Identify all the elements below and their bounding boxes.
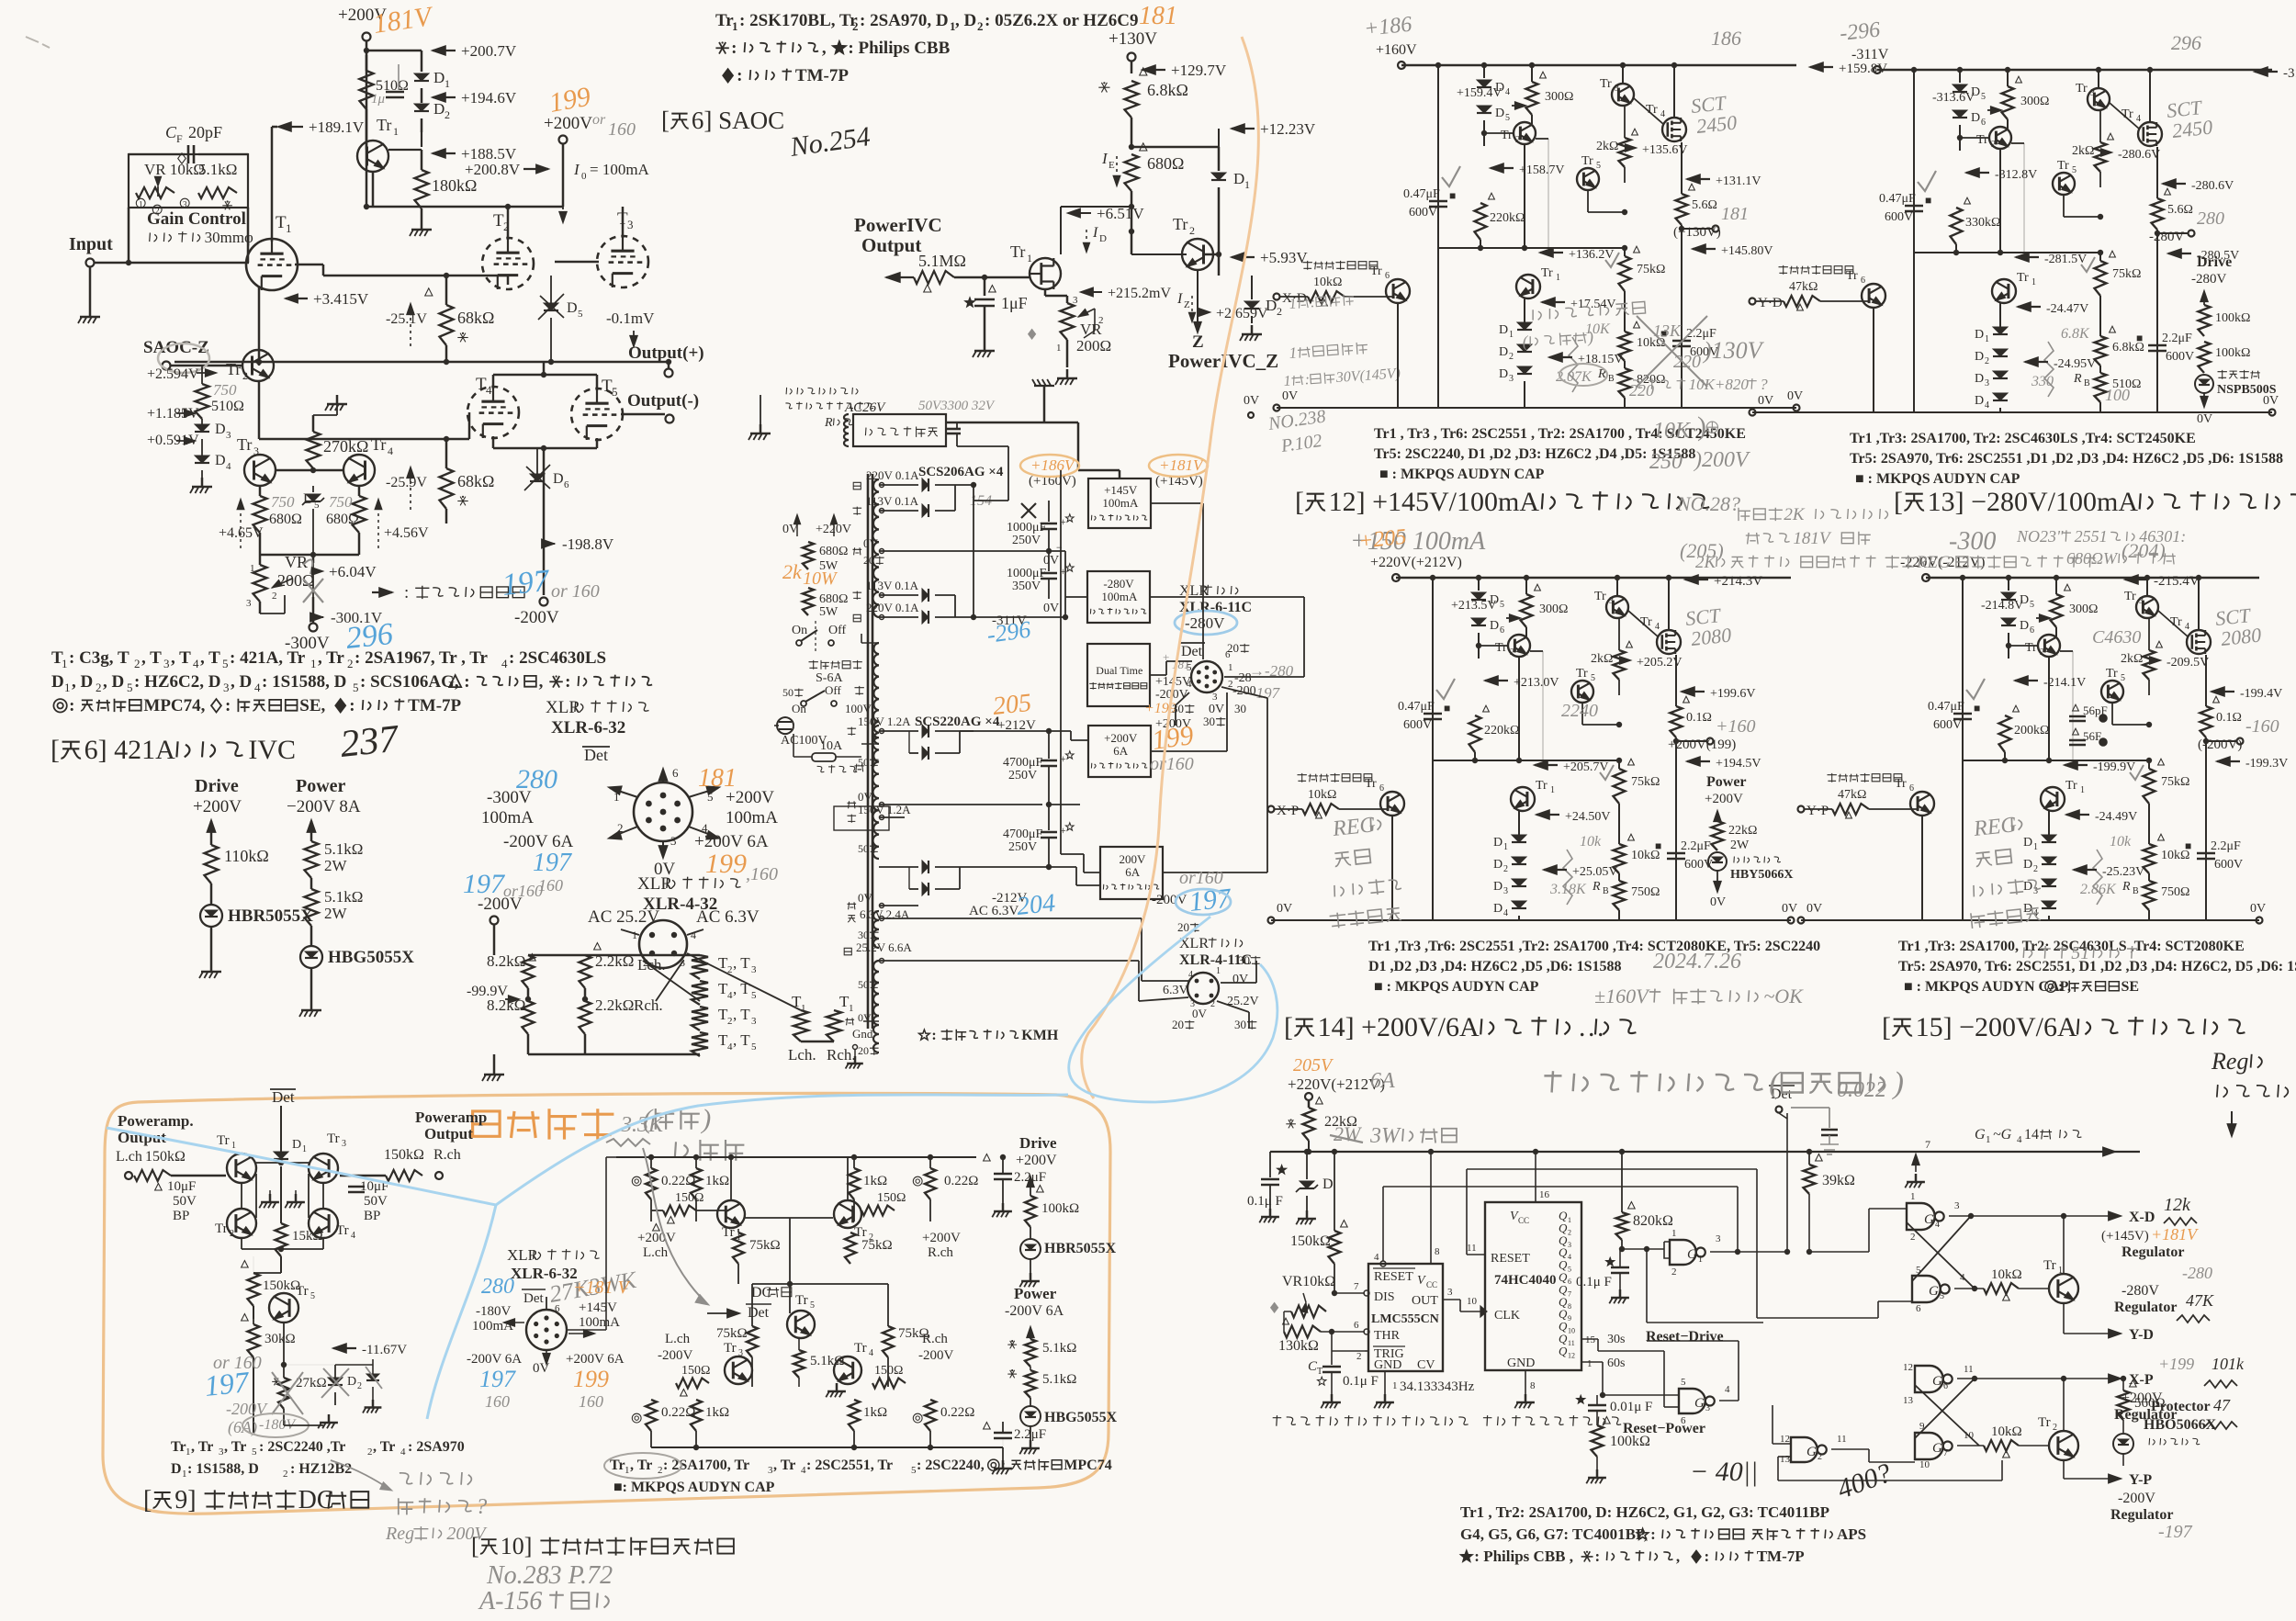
resistor 15k fig9 — [276, 1223, 287, 1256]
svg-text:1: 1 — [250, 563, 255, 574]
fuse 10A — [820, 739, 843, 753]
svg-text:Reset−Drive: Reset−Drive — [1646, 1329, 1724, 1345]
svg-text:50V3300 32V: 50V3300 32V — [918, 399, 996, 413]
svg-text:2: 2 — [1818, 1452, 1822, 1462]
voltage -300.1V — [310, 613, 323, 622]
fig13 -280V regulator voltage arrow mid1 — [1965, 168, 1979, 178]
fig10 resistor 150 L — [675, 1191, 703, 1205]
svg-text:BP: BP — [173, 1209, 189, 1223]
svg-text:+199: +199 — [2158, 1355, 2194, 1373]
svg-text:Det: Det — [584, 746, 608, 764]
timer 0.1uF star cap — [1277, 1165, 1287, 1175]
wire 680s join — [260, 554, 359, 557]
svg-text:1: 1 — [1283, 373, 1291, 389]
fig10 xlr label — [507, 1246, 600, 1264]
annotation 2k10W orange — [782, 560, 803, 583]
fig15 -200V regulator voltage arrow rail right — [2124, 575, 2138, 585]
fig13 -280V regulator capacitor 2.2uF — [2162, 332, 2192, 345]
svg-text:1: 1 — [1550, 785, 1555, 795]
svg-text:150kΩ: 150kΩ — [1290, 1233, 1331, 1249]
fig13 -280V regulator diode chain — [1993, 327, 2008, 334]
label XLR plug 4-11C — [1179, 936, 1243, 951]
svg-text:5: 5 — [222, 657, 229, 670]
svg-text:T, T: T, T — [716, 996, 717, 997]
svg-text::: : — [1650, 1525, 1656, 1543]
svg-text::: : — [225, 696, 231, 715]
svg-text:0.22Ω: 0.22Ω — [944, 1174, 978, 1188]
svg-text:D: D — [2020, 619, 2029, 633]
svg-text:39kΩ: 39kΩ — [1822, 1173, 1855, 1188]
svg-text:150kΩ: 150kΩ — [145, 1149, 186, 1165]
svg-text:110kΩ: 110kΩ — [224, 847, 269, 865]
svg-text:5: 5 — [578, 309, 583, 320]
wire T1 cathode down — [258, 287, 261, 366]
hw -180V circled — [259, 1417, 297, 1433]
fig15 -200V regulator voltage arrow sct out — [2211, 687, 2224, 697]
svg-text:300Ω: 300Ω — [1545, 90, 1573, 104]
svg-text:-24.95V: -24.95V — [2054, 357, 2096, 371]
fig14 +200V regulator resistor 2k — [1614, 650, 1626, 680]
svg-text:11: 11 — [1964, 1364, 1974, 1375]
svg-text::: : — [464, 672, 469, 692]
svg-text:4: 4 — [869, 1348, 873, 1358]
voltage arrow +194.6V — [432, 93, 445, 103]
svg-text:Tr1 ,Tr3: 2SA1700, Tr2: 2SC46: Tr1 ,Tr3: 2SA1700, Tr2: 2SC4630LS ,Tr4: … — [1850, 431, 2196, 446]
svg-text:30: 30 — [1203, 715, 1215, 728]
svg-text:10kΩ: 10kΩ — [1313, 276, 1342, 289]
svg-text:Poweramp.: Poweramp. — [118, 1112, 194, 1130]
svg-text:510Ω: 510Ω — [211, 399, 244, 414]
svg-text:: 2SC2551, Tr: : 2SC2551, Tr — [806, 1458, 893, 1473]
svg-text:10K: 10K — [1653, 419, 1692, 443]
label Det — [584, 746, 608, 764]
svg-text:CV: CV — [1417, 1358, 1435, 1372]
svg-text:-11.67V: -11.67V — [362, 1343, 407, 1357]
fig14 +200V regulator supply terminal +220V(+212V) — [1370, 555, 1462, 570]
svg-text:THR: THR — [1374, 1329, 1401, 1343]
svg-text:0V: 0V — [1232, 973, 1248, 986]
svg-text:6: 6 — [1861, 276, 1865, 286]
fig10 caption — [471, 1533, 734, 1559]
svg-text:50: 50 — [858, 842, 869, 855]
svg-text:D: D — [2023, 880, 2032, 894]
svg-text:): ) — [1586, 328, 1593, 347]
svg-text:Output: Output — [861, 234, 921, 256]
fig14 +200V regulator resistor Rb — [1614, 881, 1626, 910]
svg-text:Tr: Tr — [2057, 159, 2069, 173]
svg-text:+129.7V: +129.7V — [1171, 62, 1227, 79]
svg-text:27kΩ: 27kΩ — [296, 1376, 327, 1390]
timer G4 gate — [1907, 1203, 1935, 1230]
fig12 hw right notes — [1653, 419, 1692, 443]
svg-text:-25.23V: -25.23V — [2102, 865, 2144, 879]
svg-text:2240: 2240 — [1561, 701, 1598, 721]
fig13 -280V regulator voltage arrow tr4 — [2118, 148, 2160, 162]
wire Tr2 emitter down — [1197, 270, 1199, 331]
label 20 core xlr4 — [1177, 920, 1199, 934]
ground HBG — [310, 968, 313, 1001]
svg-text:0.47μF: 0.47μF — [1403, 187, 1440, 201]
voltage +2.594V — [147, 366, 199, 382]
svg-text:20: 20 — [1227, 641, 1239, 655]
transistor Tr2 fig9 — [215, 1221, 228, 1236]
svg-text:820kΩ: 820kΩ — [1633, 1213, 1673, 1229]
ground VR saoc — [1066, 369, 1069, 378]
svg-text:+6.04V: +6.04V — [329, 563, 377, 580]
wires fig9 mid — [241, 1238, 242, 1249]
svg-text:8: 8 — [1568, 1302, 1571, 1311]
label KMH — [919, 1028, 1059, 1043]
resistor 510 (750) — [201, 366, 203, 384]
svg-text:G: G — [1694, 1396, 1705, 1411]
svg-text:3: 3 — [1073, 295, 1078, 306]
svg-text:4: 4 — [1568, 1253, 1571, 1261]
svg-text:B: B — [2084, 378, 2090, 388]
svg-text:13] −280V/100mA: 13] −280V/100mA — [1928, 487, 2139, 517]
svg-text:+131.1V: +131.1V — [1716, 174, 1761, 188]
voltage -25.1V dotted — [410, 305, 411, 349]
timer gnd g4 top — [1925, 1138, 1930, 1151]
svg-text:100mA: 100mA — [579, 1315, 620, 1330]
svg-text:20: 20 — [858, 1044, 869, 1057]
svg-text:F: F — [176, 132, 183, 145]
capacitor 10uF R — [360, 1179, 388, 1194]
grid rail lower — [259, 438, 469, 441]
fig12 +145V regulator top rail — [1401, 64, 1796, 67]
svg-text:100V: 100V — [845, 702, 872, 715]
fig14 +200V regulator voltage arrow tr1 — [1536, 810, 1549, 820]
svg-text:Tr: Tr — [226, 360, 241, 378]
svg-text:XLR-6-32: XLR-6-32 — [551, 718, 625, 737]
fig15 -200V regulator internal wires — [2111, 703, 2113, 725]
svg-text:199: 199 — [546, 82, 592, 118]
X mark gray — [1021, 503, 1036, 518]
svg-text:150kΩ: 150kΩ — [263, 1278, 300, 1293]
blue curve psu loop — [1069, 917, 1277, 1102]
wire xlr4 to pins — [643, 961, 700, 1001]
fig10 75k mid R — [883, 1326, 894, 1357]
svg-text:: C3g, T: : C3g, T — [69, 648, 129, 668]
fig12 +145V regulator transistor Tr1 — [1541, 266, 1553, 280]
fig14 power led chain — [1706, 774, 1747, 790]
svg-text:-214.8V: -214.8V — [1981, 599, 2023, 613]
svg-text:+159.4V: +159.4V — [1457, 86, 1503, 100]
svg-text:Tr: Tr — [1370, 265, 1382, 278]
fig15 -200V regulator bottom rail 0V — [1801, 919, 2259, 921]
label 50 core b — [858, 842, 879, 855]
label PowerIVC Output — [854, 214, 942, 236]
svg-text:1: 1 — [393, 125, 399, 138]
svg-text:30kΩ: 30kΩ — [264, 1332, 296, 1346]
ground D2 saoc — [1251, 325, 1254, 334]
svg-text:Tr5: 2SA970, Tr6: 2SC2551 ,D1: Tr5: 2SA970, Tr6: 2SC2551 ,D1 ,D2 ,D3 ,D… — [1850, 451, 2283, 467]
fig13 -280V regulator transistor Tr6 — [1862, 284, 1885, 308]
svg-text:5: 5 — [1505, 113, 1510, 123]
output plus terminal — [628, 343, 704, 363]
svg-text:GND: GND — [1507, 1356, 1535, 1370]
fig13 hw no23 note — [2016, 527, 2186, 546]
svg-text:?: ? — [476, 1495, 487, 1519]
svg-text:0V: 0V — [1710, 895, 1726, 909]
fig12 +145V regulator transistor Tr6 — [1386, 279, 1410, 303]
svg-text:7: 7 — [1925, 1138, 1930, 1151]
regulator box dual time — [1087, 644, 1150, 706]
svg-text:Tr1 ,Tr3 ,Tr6: 2SC2551 ,Tr2: 2: Tr1 ,Tr3 ,Tr6: 2SC2551 ,Tr2: 2SA1700 ,Tr… — [1368, 939, 1820, 954]
fig12 hw left note — [1289, 292, 1355, 312]
svg-text:200kΩ: 200kΩ — [2014, 724, 2049, 737]
svg-text:-300: -300 — [1949, 527, 1996, 556]
label -200V out — [1152, 893, 1187, 907]
svg-text:: 1S1588, D: : 1S1588, D — [187, 1461, 259, 1477]
fig15 -200V regulator transistor Tr3 — [2124, 590, 2136, 603]
fig15 -200V regulator wire tr2 down — [2048, 657, 2050, 760]
svg-text:Power: Power — [1706, 774, 1747, 790]
capacitor 10uF L — [0, 0, 1, 1]
svg-text:+4.65V: +4.65V — [219, 525, 264, 541]
svg-text:D: D — [1499, 345, 1508, 359]
hw douitsu kiban orange — [473, 1109, 614, 1139]
capacitor 4700uF b — [1003, 827, 1043, 841]
svg-text:Y-D: Y-D — [2129, 1327, 2154, 1343]
svg-text:-199.9V: -199.9V — [2093, 760, 2135, 774]
diode D3 — [201, 419, 203, 424]
timer hw reg note — [2211, 1048, 2262, 1075]
svg-text:5: 5 — [810, 1300, 815, 1311]
fig13 -280V regulator voltage arrow rail right — [2254, 67, 2268, 77]
svg-text:D: D — [1322, 1176, 1334, 1192]
svg-text:L.ch: L.ch — [116, 1149, 142, 1165]
blue curve branch down — [427, 1205, 496, 1419]
svg-text:: 2SA1967, Tr , Tr: : 2SA1967, Tr , Tr — [355, 648, 489, 668]
fig12 +145V regulator diode chain — [1517, 322, 1532, 330]
fig14 +200V regulator caption hw — [0, 0, 1, 1]
svg-text:HBG5055X: HBG5055X — [328, 948, 414, 967]
svg-text:D: D — [215, 453, 226, 468]
svg-text:1: 1 — [1986, 1134, 1991, 1145]
svg-text:0V: 0V — [858, 1011, 872, 1024]
LED HBG5055X — [300, 946, 322, 968]
fig15 -200V regulator transistor Tr1 — [2065, 779, 2077, 793]
timer 100k — [1592, 1425, 1604, 1457]
fig13 -280V regulator gray pot annotation — [2061, 326, 2090, 342]
label SCS220AG — [915, 715, 1000, 729]
svg-text:T, T: T, T — [716, 971, 717, 972]
svg-text:680Ω: 680Ω — [819, 545, 848, 558]
svg-text:D: D — [1490, 619, 1499, 633]
svg-text:T, T: T, T — [716, 1048, 717, 1049]
svg-text:-160: -160 — [2245, 716, 2279, 737]
fig12 +145V regulator diodes D5 D6 — [1483, 65, 1485, 78]
xlr4 labels — [1232, 973, 1248, 986]
svg-text:16: 16 — [1539, 1189, 1550, 1200]
svg-text:197: 197 — [203, 1365, 252, 1402]
svg-text:330kΩ: 330kΩ — [1965, 216, 2000, 230]
voltage arrow +200.7V — [432, 46, 445, 56]
svg-text:400?: 400? — [1833, 1458, 1896, 1505]
label R core — [824, 416, 852, 430]
svg-text:2kΩ: 2kΩ — [1596, 140, 1618, 153]
svg-text:3: 3 — [1985, 378, 1989, 388]
svg-text:11: 11 — [1837, 1434, 1847, 1445]
svg-text:150V 1.2A: 150V 1.2A — [858, 803, 911, 816]
svg-text:3: 3 — [342, 1139, 346, 1149]
svg-text:50: 50 — [782, 686, 793, 699]
capacitor 1u (gray) — [398, 64, 400, 90]
label -212V — [992, 891, 1027, 906]
fig10 hw caption notes — [486, 1561, 613, 1590]
svg-text:KMH: KMH — [1021, 1028, 1059, 1043]
annotation No254 — [787, 121, 872, 163]
svg-text:1kΩ: 1kΩ — [705, 1405, 729, 1420]
annotation 181 orange top — [1139, 2, 1177, 30]
svg-text:VR: VR — [285, 553, 308, 571]
svg-text:X-D: X-D — [2129, 1210, 2155, 1225]
fig13 -280V regulator voltage arrow rb — [2024, 357, 2038, 367]
fig10 75k mid L — [747, 1326, 758, 1357]
fig15 -200V regulator voltage arrow tr4 — [2167, 656, 2209, 670]
svg-text:5: 5 — [1500, 600, 1504, 610]
fig13 -280V regulator voltage arrow out2 — [2167, 249, 2181, 259]
timer protector led — [2151, 1399, 2211, 1414]
svg-text:100mA: 100mA — [726, 808, 778, 827]
resistor 68k upper — [440, 305, 454, 345]
resistor 180k — [421, 150, 423, 170]
svg-text:750Ω: 750Ω — [1631, 885, 1660, 899]
legend taiasu — [379, 588, 393, 598]
fig10 Tr3 — [724, 1341, 737, 1356]
timer top rail — [1270, 1151, 2140, 1153]
fig12 +145V regulator resistor 300 — [1531, 65, 1533, 82]
svg-text:CC: CC — [1426, 1280, 1437, 1289]
fig14 +200V regulator wire tr2 down — [1518, 657, 1520, 760]
svg-text:4: 4 — [1374, 1252, 1379, 1263]
fig14 +200V regulator diode chain — [1512, 835, 1526, 842]
svg-text:D: D — [171, 1461, 182, 1477]
svg-text:1000μF: 1000μF — [1007, 521, 1047, 535]
svg-text:■ : MKPQS AUDYN CAP: ■ : MKPQS AUDYN CAP — [1855, 471, 2020, 487]
svg-text:: Philips CBB: : Philips CBB — [848, 39, 950, 58]
timer CT cap — [1308, 1359, 1318, 1374]
svg-text:250V: 250V — [1012, 534, 1041, 547]
parts list 421A line1 — [51, 648, 63, 668]
svg-text:[: [ — [51, 735, 60, 765]
svg-text:■ : MKPQS AUDYN CAP: ■ : MKPQS AUDYN CAP — [1379, 467, 1545, 482]
svg-text:2kΩ: 2kΩ — [1591, 652, 1613, 666]
fig13 -280V regulator resistor 10k mid — [2095, 336, 2107, 366]
fig15 -200V regulator diodes D5 D6 — [2008, 578, 2009, 591]
label 0V — [654, 860, 676, 879]
fig14 +200V regulator resistor 75k — [1614, 769, 1626, 804]
svg-text:680Ω: 680Ω — [819, 592, 848, 606]
svg-text:1: 1 — [1392, 1380, 1398, 1391]
timer wire tr1 collector — [2063, 1216, 2065, 1274]
svg-text:3.18K: 3.18K — [1549, 882, 1587, 897]
svg-text:1: 1 — [62, 657, 68, 670]
svg-text:15: 15 — [1585, 1334, 1596, 1345]
parts list SAOC line1 — [715, 11, 734, 30]
svg-text:-314.5V: -314.5V — [2283, 66, 2296, 81]
annotation 197 or160 blue — [463, 869, 506, 899]
svg-text:199: 199 — [705, 849, 747, 879]
fig10 xlr det — [523, 1291, 544, 1306]
svg-text:150Ω: 150Ω — [675, 1191, 703, 1205]
fig15 -200V regulator voltage arrow d — [1981, 599, 2023, 613]
fig12 +145V regulator voltage arrow mid1 — [1490, 163, 1503, 174]
svg-text:: 05Z6.2X or HZ6C9: : 05Z6.2X or HZ6C9 — [985, 11, 1138, 30]
svg-text:G: G — [1924, 1212, 1934, 1227]
svg-text:+145V: +145V — [579, 1300, 617, 1315]
svg-text:6: 6 — [1500, 625, 1504, 636]
svg-text:+24.50V: +24.50V — [1565, 810, 1611, 824]
XLR6 pin arrows — [662, 770, 664, 782]
svg-text:R.ch: R.ch — [928, 1245, 953, 1260]
svg-text:+200V: +200V — [1705, 792, 1743, 806]
svg-text:): ) — [1697, 411, 1706, 442]
fig13 -280V regulator resistor 220k — [1951, 208, 1963, 244]
svg-text:REG: REG — [1916, 553, 1951, 572]
timer feedback wire upper — [1467, 1168, 1757, 1170]
svg-text:6: 6 — [1909, 783, 1914, 794]
svg-text:10kΩ: 10kΩ — [1991, 1424, 2022, 1439]
fig15 -200V regulator gray check — [1966, 679, 1985, 699]
svg-text:■: MKPQS AUDYN CAP: ■: MKPQS AUDYN CAP — [613, 1480, 775, 1495]
node -300V — [310, 624, 318, 632]
svg-text:330: 330 — [2031, 374, 2054, 389]
svg-text:750: 750 — [271, 493, 295, 511]
svg-text:D: D — [1493, 858, 1503, 872]
svg-text:3: 3 — [1705, 1403, 1710, 1413]
svg-text:D: D — [51, 672, 64, 692]
parts list SAOC line3 — [723, 66, 849, 85]
fig13 -280V regulator annotation top orange/gray — [1839, 18, 1881, 46]
svg-text:1: 1 — [445, 77, 450, 90]
fig14 +200V regulator internal wires — [1581, 703, 1583, 725]
label poweramp R — [415, 1109, 487, 1126]
svg-text:I: I — [1092, 225, 1098, 241]
svg-text:-280: -280 — [2182, 1264, 2212, 1282]
fig12 +145V regulator transistor Tr5 — [1581, 154, 1593, 168]
annotation +186V orange circled — [1030, 456, 1076, 474]
capacitor 1uF star — [984, 277, 986, 296]
label Det xlr6 — [1181, 644, 1203, 659]
svg-text:: 2SK170BL, Tr: : 2SK170BL, Tr — [739, 11, 858, 30]
timer G14 pin note — [1975, 1127, 1986, 1143]
svg-text:-25.9V: -25.9V — [386, 475, 427, 490]
fig10 Tr4 — [854, 1341, 867, 1356]
svg-text:5.1kΩ: 5.1kΩ — [1042, 1341, 1076, 1356]
tube T3 dashed — [617, 209, 628, 229]
svg-text:VR10kΩ: VR10kΩ — [1282, 1274, 1335, 1289]
svg-text:0V: 0V — [1758, 394, 1773, 408]
svg-text:1: 1 — [1244, 178, 1250, 191]
svg-text:-311V: -311V — [1851, 47, 1889, 62]
svg-text:4: 4 — [1725, 1384, 1730, 1395]
transistor Tr4 fig9 — [336, 1223, 349, 1238]
svg-text:L.ch: L.ch — [643, 1245, 669, 1260]
svg-text:5: 5 — [252, 1447, 257, 1458]
wire Tr2 base — [1205, 253, 1219, 256]
svg-text:Regulator: Regulator — [2122, 1244, 2184, 1260]
label +200V 100mA right — [726, 788, 774, 807]
ground 270k — [313, 414, 337, 416]
regulator box +200V — [1088, 726, 1151, 777]
svg-text:2W: 2W — [324, 905, 348, 922]
svg-text:5: 5 — [1940, 1291, 1944, 1301]
svg-text:2: 2 — [1503, 864, 1508, 874]
label +212V — [997, 718, 1036, 733]
timer hw 4011 4001 — [1690, 1457, 1758, 1487]
svg-text:10kΩ: 10kΩ — [1308, 788, 1336, 802]
